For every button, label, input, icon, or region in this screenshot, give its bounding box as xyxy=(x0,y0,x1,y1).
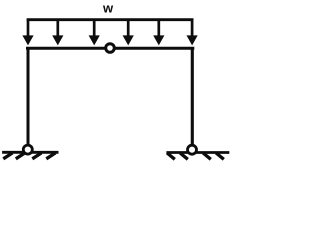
svg-text:w: w xyxy=(102,0,114,15)
left ground hatch 2 xyxy=(16,153,25,159)
left ground hatch 4 xyxy=(46,153,55,159)
load arrow 4 xyxy=(123,19,134,45)
left ground hatch 3 xyxy=(32,153,41,159)
load arrow 6 xyxy=(187,19,198,45)
load arrow 5 xyxy=(153,19,164,45)
right ground line xyxy=(166,151,229,154)
left ground hatch 1 xyxy=(3,153,12,159)
right column xyxy=(191,47,194,145)
load arrow 2 xyxy=(52,19,63,45)
right ground hatch 3 xyxy=(203,153,211,159)
beam xyxy=(26,47,194,50)
load arrow 3 xyxy=(89,19,100,45)
internal hinge xyxy=(106,44,115,53)
right ground hatch 1 xyxy=(167,153,175,159)
right support pin xyxy=(188,145,197,154)
left support pin xyxy=(23,145,32,154)
right ground hatch 4 xyxy=(216,153,224,159)
right ground hatch 2 xyxy=(180,153,188,159)
load line xyxy=(27,18,194,21)
left column xyxy=(27,47,30,145)
left ground line xyxy=(2,151,58,154)
load arrow 1 xyxy=(22,19,33,45)
